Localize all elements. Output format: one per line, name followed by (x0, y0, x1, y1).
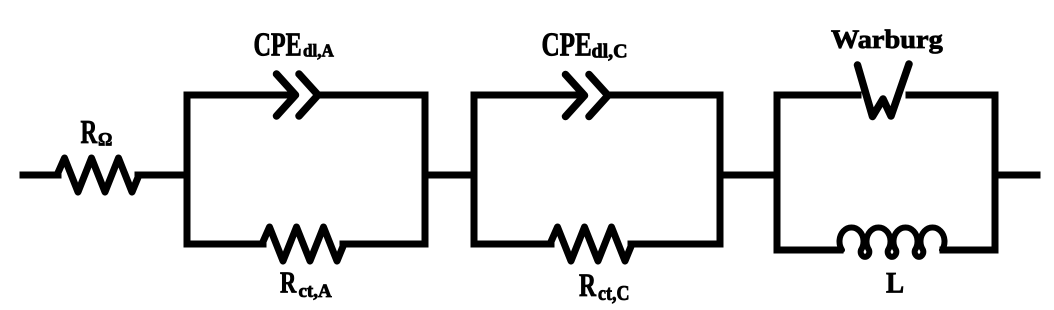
wire block1 bottom right (343, 241, 425, 248)
wire resistor to block1 (138, 172, 187, 179)
svg-text:ct,C: ct,C (598, 283, 630, 306)
wire right terminal (995, 172, 1037, 179)
wire block3 bottom left (777, 247, 840, 254)
node block1 left vertical (184, 95, 191, 244)
label Rct,A (280, 265, 332, 302)
wire left terminal (23, 172, 58, 179)
wire block3 top left (777, 92, 858, 99)
inductor L coil (840, 227, 945, 256)
svg-text:dl,A: dl,A (303, 40, 334, 61)
CPE 1 chevron 2 (299, 74, 318, 116)
svg-text:R: R (81, 114, 98, 151)
svg-text:Ω: Ω (98, 129, 112, 151)
wire block1 bottom left (187, 241, 263, 248)
wire block2 bottom left (474, 241, 551, 248)
wire block2 top left (474, 92, 581, 99)
resistor Rct,C (550, 227, 632, 261)
node block1 right vertical (422, 95, 429, 244)
svg-text:R: R (579, 268, 596, 304)
wire block3 bottom right (943, 247, 995, 254)
wire block2 to block3 (720, 172, 777, 179)
wire block1 top left (187, 92, 292, 99)
CPE 2 chevron 1 (566, 75, 585, 117)
label Rct,C (579, 268, 630, 305)
svg-text:R: R (280, 265, 297, 299)
node block3 right vertical (992, 95, 999, 250)
node block3 left vertical (774, 95, 781, 250)
wire block3 top right (909, 92, 995, 99)
svg-text:dl,C: dl,C (592, 41, 628, 63)
wire block1 top right (320, 92, 425, 99)
label R-ohm (81, 114, 113, 151)
label CPEdl,C (542, 26, 628, 64)
svg-text:Warburg: Warburg (831, 25, 943, 54)
svg-text:CPE: CPE (542, 26, 592, 64)
svg-text:CPE: CPE (254, 27, 302, 64)
wire block1 to block2 (425, 172, 474, 179)
Warburg element W symbol (858, 64, 910, 117)
svg-text:L: L (886, 267, 904, 299)
node block2 left vertical (471, 95, 478, 244)
wire block2 top right (610, 92, 720, 99)
resistor R-ohm (57, 158, 139, 192)
svg-text:ct,A: ct,A (299, 281, 333, 302)
CPE 2 chevron 2 (589, 75, 608, 117)
resistor Rct,A (262, 227, 344, 261)
label CPEdl,A (254, 27, 335, 64)
CPE 1 chevron 1 (277, 74, 296, 116)
wire block2 bottom right (631, 241, 720, 248)
node block2 right vertical (717, 95, 724, 244)
